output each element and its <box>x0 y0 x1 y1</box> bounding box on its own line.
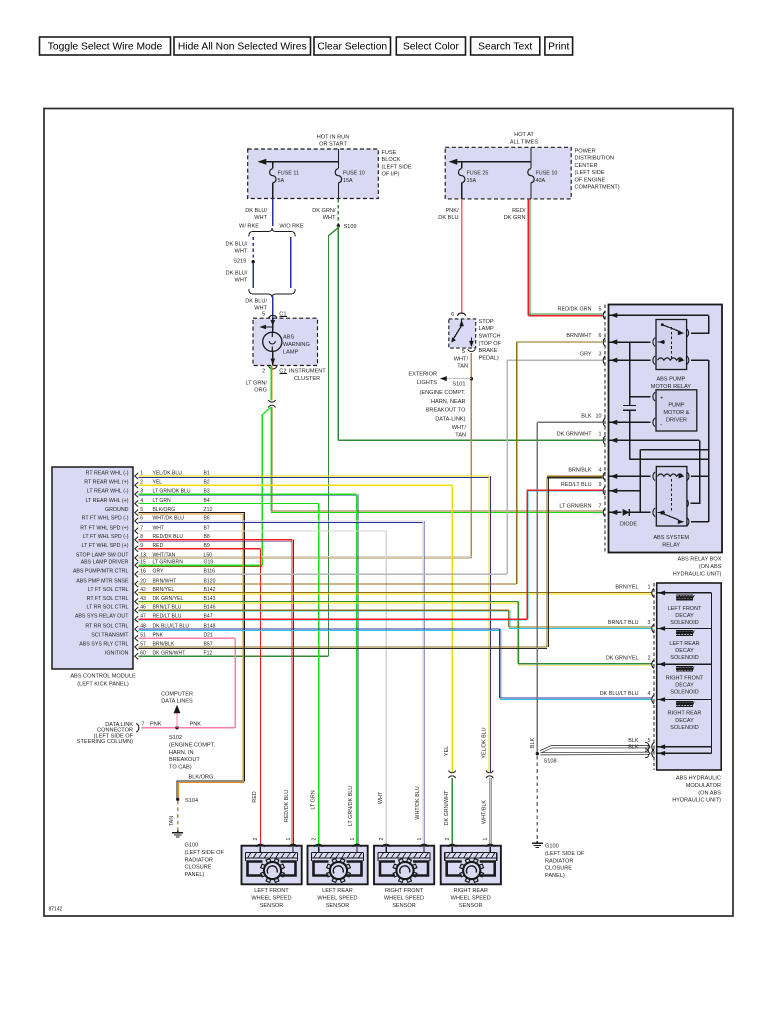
svg-text:RIGHT REAR: RIGHT REAR <box>453 888 487 894</box>
svg-text:47: 47 <box>140 614 146 620</box>
svg-text:WHEEL SPEED: WHEEL SPEED <box>451 895 491 901</box>
svg-text:Search Text: Search Text <box>478 41 532 52</box>
svg-text:48: 48 <box>140 624 146 630</box>
svg-text:4: 4 <box>648 691 651 697</box>
svg-text:DECAY: DECAY <box>675 648 694 654</box>
svg-text:BLK: BLK <box>628 745 639 751</box>
svg-text:7: 7 <box>140 525 143 531</box>
svg-text:46: 46 <box>140 605 146 611</box>
svg-text:Toggle Select Wire Mode: Toggle Select Wire Mode <box>48 41 163 52</box>
svg-text:WHT/: WHT/ <box>454 356 469 362</box>
svg-text:1: 1 <box>140 470 143 476</box>
svg-text:LT GRN: LT GRN <box>310 790 316 809</box>
svg-text:Z12: Z12 <box>204 507 213 513</box>
svg-text:LIGHTS: LIGHTS <box>417 380 437 386</box>
svg-text:LT GRN: LT GRN <box>153 498 172 504</box>
svg-text:COMPUTER: COMPUTER <box>161 691 193 697</box>
svg-text:(ON ABS: (ON ABS <box>698 790 721 796</box>
svg-text:RT RR SOL CTRL: RT RR SOL CTRL <box>85 624 128 630</box>
svg-text:DK GRN/YEL: DK GRN/YEL <box>606 656 639 662</box>
svg-text:40A: 40A <box>536 178 546 184</box>
svg-text:RIGHT FRONT: RIGHT FRONT <box>666 675 704 681</box>
svg-text:B1: B1 <box>204 470 210 476</box>
svg-text:DECAY: DECAY <box>675 683 694 689</box>
svg-text:DISTRIBUTION: DISTRIBUTION <box>575 156 614 162</box>
svg-text:ABS CONTROL MODULE: ABS CONTROL MODULE <box>70 674 136 680</box>
svg-text:(LEFT SIDE: (LEFT SIDE <box>382 164 412 170</box>
svg-text:LT REAR WHL (+): LT REAR WHL (+) <box>85 498 128 504</box>
svg-text:2: 2 <box>140 480 143 486</box>
svg-text:S102: S102 <box>169 735 182 741</box>
svg-text:FUSE 11: FUSE 11 <box>278 171 299 177</box>
svg-text:RT FT SOL CTRL: RT FT SOL CTRL <box>87 596 129 602</box>
svg-text:DK GRN/: DK GRN/ <box>312 208 336 214</box>
svg-text:DK GRN/WHT: DK GRN/WHT <box>557 432 592 438</box>
svg-text:SENSOR: SENSOR <box>326 903 350 909</box>
svg-text:RADIATOR: RADIATOR <box>185 857 213 863</box>
svg-text:DK BLU/: DK BLU/ <box>226 241 248 247</box>
svg-text:WARNING: WARNING <box>283 342 310 348</box>
svg-text:DECAY: DECAY <box>675 718 694 724</box>
svg-text:LEFT REAR: LEFT REAR <box>669 641 699 647</box>
svg-text:DIODE: DIODE <box>620 521 637 527</box>
svg-text:RELAY: RELAY <box>662 543 680 549</box>
svg-text:PANEL): PANEL) <box>545 873 565 879</box>
svg-text:57: 57 <box>140 641 146 647</box>
svg-text:B8: B8 <box>204 534 210 540</box>
svg-text:HARN, IN: HARN, IN <box>169 750 194 756</box>
svg-text:COMPARTMENT): COMPARTMENT) <box>575 185 620 191</box>
svg-text:DK GRN/YEL: DK GRN/YEL <box>153 596 184 602</box>
svg-text:9: 9 <box>140 543 143 549</box>
svg-text:INSTRUMENT: INSTRUMENT <box>289 368 326 374</box>
svg-text:RED/DK BLU: RED/DK BLU <box>153 534 184 540</box>
svg-text:10: 10 <box>596 414 602 420</box>
svg-text:51: 51 <box>140 633 146 639</box>
svg-text:4: 4 <box>140 498 143 504</box>
svg-text:ABS SYS RELAY OUT: ABS SYS RELAY OUT <box>75 614 129 620</box>
svg-text:RT REAR WHL (+): RT REAR WHL (+) <box>84 480 128 486</box>
svg-text:TO CAB): TO CAB) <box>169 765 192 771</box>
svg-text:LT REAR WHL (-): LT REAR WHL (-) <box>87 489 129 495</box>
svg-text:STEERING COLUMN): STEERING COLUMN) <box>77 739 133 745</box>
svg-text:DK GRN/WHT: DK GRN/WHT <box>444 790 450 825</box>
svg-text:BLK/ORG: BLK/ORG <box>153 507 176 513</box>
svg-text:BRN/BLK: BRN/BLK <box>568 468 591 474</box>
svg-text:RED/DK GRN: RED/DK GRN <box>558 307 592 313</box>
svg-text:STOP: STOP <box>479 319 494 325</box>
svg-text:LEFT FRONT: LEFT FRONT <box>668 606 702 612</box>
svg-text:WHEEL SPEED: WHEEL SPEED <box>251 895 291 901</box>
svg-text:SOLENOID: SOLENOID <box>670 690 698 696</box>
svg-text:MOTOR &: MOTOR & <box>663 410 689 416</box>
svg-text:87142: 87142 <box>49 907 63 913</box>
svg-text:13: 13 <box>140 552 146 558</box>
svg-text:B7: B7 <box>204 525 210 531</box>
svg-text:WHT/DK BLU: WHT/DK BLU <box>153 515 185 521</box>
svg-text:2: 2 <box>253 837 259 840</box>
svg-text:DRIVER: DRIVER <box>666 418 687 424</box>
svg-text:15A: 15A <box>467 178 477 184</box>
svg-text:SCI TRANSMIT: SCI TRANSMIT <box>91 633 129 639</box>
svg-text:FUSE: FUSE <box>382 150 397 156</box>
svg-text:LAMP: LAMP <box>479 326 495 332</box>
svg-text:B2: B2 <box>204 480 210 486</box>
svg-text:4: 4 <box>599 468 602 474</box>
svg-text:PNK: PNK <box>190 721 202 727</box>
svg-text:DECAY: DECAY <box>675 613 694 619</box>
svg-text:B3: B3 <box>204 489 210 495</box>
svg-text:DK BLU/: DK BLU/ <box>226 270 248 276</box>
svg-text:BLK: BLK <box>628 738 639 744</box>
svg-text:(ENGINE COMPT.: (ENGINE COMPT. <box>169 742 215 748</box>
svg-text:7: 7 <box>141 722 144 728</box>
svg-text:OF ENGINE: OF ENGINE <box>575 177 606 183</box>
svg-text:S219: S219 <box>233 259 246 265</box>
svg-text:BLK: BLK <box>530 738 536 749</box>
svg-text:2: 2 <box>648 656 651 662</box>
svg-text:BRN/WHT: BRN/WHT <box>566 333 592 339</box>
svg-text:3: 3 <box>599 351 602 357</box>
svg-text:BLK: BLK <box>581 414 592 420</box>
svg-text:YEL/DK BLU: YEL/DK BLU <box>153 470 183 476</box>
svg-text:BRAKE: BRAKE <box>479 348 498 354</box>
svg-text:BRN/LT BLU: BRN/LT BLU <box>608 620 639 626</box>
svg-text:B9: B9 <box>204 543 210 549</box>
svg-text:LT GRN/DK BLU: LT GRN/DK BLU <box>153 489 191 495</box>
svg-text:LT GRN/BRN: LT GRN/BRN <box>559 504 591 510</box>
svg-text:B146: B146 <box>204 605 216 611</box>
svg-text:15: 15 <box>140 560 146 566</box>
svg-text:RT FT WHL SPD (+): RT FT WHL SPD (+) <box>80 525 128 531</box>
svg-text:B47: B47 <box>204 614 213 620</box>
svg-text:ORG: ORG <box>254 387 267 393</box>
svg-text:B57: B57 <box>204 641 213 647</box>
svg-text:YEL: YEL <box>444 746 450 756</box>
svg-text:6: 6 <box>451 312 454 318</box>
svg-text:LT FT WHL SPD (+): LT FT WHL SPD (+) <box>81 543 128 549</box>
svg-text:BLK/ORG: BLK/ORG <box>189 774 214 780</box>
svg-text:HOT IN RUN: HOT IN RUN <box>317 134 350 140</box>
svg-text:HOT AT: HOT AT <box>514 132 534 138</box>
svg-text:9: 9 <box>599 482 602 488</box>
svg-text:LEFT REAR: LEFT REAR <box>322 888 353 894</box>
svg-text:GRY: GRY <box>153 569 165 575</box>
svg-text:LT GRN/BRN: LT GRN/BRN <box>153 560 184 566</box>
svg-text:DK GRN: DK GRN <box>504 215 526 221</box>
svg-text:ABS RELAY BOX: ABS RELAY BOX <box>678 557 722 563</box>
svg-text:ALL TIMES: ALL TIMES <box>510 140 539 146</box>
svg-text:RIGHT FRONT: RIGHT FRONT <box>385 888 424 894</box>
svg-text:ABS: ABS <box>283 335 294 341</box>
svg-text:SENSOR: SENSOR <box>459 903 483 909</box>
svg-text:5A: 5A <box>278 178 285 184</box>
svg-text:1: 1 <box>286 837 292 840</box>
svg-text:6: 6 <box>599 333 602 339</box>
svg-text:RED/LT BLU: RED/LT BLU <box>153 614 182 620</box>
svg-text:WHEEL SPEED: WHEEL SPEED <box>317 895 357 901</box>
svg-text:B142: B142 <box>204 587 216 593</box>
svg-text:GROUND: GROUND <box>105 507 129 513</box>
svg-text:DK BLU/: DK BLU/ <box>245 298 267 304</box>
svg-text:ABS PUMP/MTR CTRL: ABS PUMP/MTR CTRL <box>73 569 129 575</box>
svg-text:DK BLU/LT BLU: DK BLU/LT BLU <box>153 624 190 630</box>
svg-text:LEFT FRONT: LEFT FRONT <box>254 888 289 894</box>
svg-text:PNK: PNK <box>153 633 164 639</box>
svg-text:WHEEL SPEED: WHEEL SPEED <box>384 895 424 901</box>
svg-text:RED/DK BLU: RED/DK BLU <box>284 790 290 822</box>
svg-text:SOLENOID: SOLENOID <box>670 655 698 661</box>
svg-text:W/O RKE: W/O RKE <box>279 223 304 229</box>
svg-text:LT RR SOL CTRL: LT RR SOL CTRL <box>87 605 129 611</box>
svg-text:YEL: YEL <box>153 480 163 486</box>
svg-text:MOTOR RELAY: MOTOR RELAY <box>651 384 691 390</box>
svg-text:DK BLU: DK BLU <box>438 215 458 221</box>
svg-text:RED/LT BLU: RED/LT BLU <box>561 482 592 488</box>
svg-text:-: - <box>660 421 662 428</box>
svg-text:PUMP: PUMP <box>668 403 684 409</box>
svg-text:5: 5 <box>599 307 602 313</box>
svg-text:WHT: WHT <box>153 525 165 531</box>
svg-text:RED/: RED/ <box>512 208 526 214</box>
svg-text:42: 42 <box>140 587 146 593</box>
svg-text:BLOCK: BLOCK <box>382 157 401 163</box>
svg-text:BRN/YEL: BRN/YEL <box>153 587 175 593</box>
svg-text:BRN/BLK: BRN/BLK <box>153 641 175 647</box>
svg-text:(LEFT SIDE OF: (LEFT SIDE OF <box>545 851 585 857</box>
svg-text:F12: F12 <box>204 651 213 657</box>
svg-text:LT GRN/DK BLU: LT GRN/DK BLU <box>348 786 354 826</box>
svg-text:LAMP: LAMP <box>283 350 299 356</box>
svg-text:5: 5 <box>462 349 465 355</box>
svg-text:B143: B143 <box>204 596 216 602</box>
svg-text:OF I/P): OF I/P) <box>382 172 400 178</box>
svg-text:CLUSTER: CLUSTER <box>294 376 320 382</box>
svg-text:WHT/: WHT/ <box>452 425 467 431</box>
svg-text:2: 2 <box>379 837 385 840</box>
svg-text:5: 5 <box>140 507 143 513</box>
svg-text:8: 8 <box>140 534 143 540</box>
svg-text:SENSOR: SENSOR <box>260 903 284 909</box>
svg-text:CLOSURE: CLOSURE <box>185 865 212 871</box>
svg-text:B4: B4 <box>204 498 210 504</box>
svg-text:7: 7 <box>599 504 602 510</box>
svg-text:WHT: WHT <box>378 791 384 804</box>
svg-text:OR START: OR START <box>319 142 347 148</box>
svg-text:1: 1 <box>417 837 423 840</box>
svg-text:STOP LAMP SW OUT: STOP LAMP SW OUT <box>76 552 129 558</box>
svg-text:TAN: TAN <box>457 364 468 370</box>
svg-text:WHT: WHT <box>235 277 248 283</box>
svg-text:ABS HYDRAULIC: ABS HYDRAULIC <box>676 776 721 782</box>
svg-text:RT FT WHL SPD (-): RT FT WHL SPD (-) <box>82 515 129 521</box>
svg-text:PANEL): PANEL) <box>185 872 205 878</box>
svg-text:5: 5 <box>262 311 265 317</box>
svg-text:1: 1 <box>599 432 602 438</box>
svg-text:(ENGINE COMPT.: (ENGINE COMPT. <box>420 390 466 396</box>
svg-text:WHT: WHT <box>235 248 248 254</box>
svg-text:BRN/YEL: BRN/YEL <box>615 584 638 590</box>
svg-text:SOLENOID: SOLENOID <box>670 620 698 626</box>
svg-text:RED: RED <box>252 791 258 802</box>
svg-text:15A: 15A <box>343 178 353 184</box>
svg-text:43: 43 <box>140 596 146 602</box>
svg-text:B148: B148 <box>204 624 216 630</box>
svg-text:1: 1 <box>648 584 651 590</box>
svg-text:G19: G19 <box>204 560 214 566</box>
svg-text:B116: B116 <box>204 569 216 575</box>
svg-text:ABS PUMP: ABS PUMP <box>656 377 685 383</box>
svg-text:WHT: WHT <box>323 215 336 221</box>
svg-text:DATA LINES: DATA LINES <box>161 699 193 705</box>
svg-text:Select Color: Select Color <box>403 41 460 52</box>
svg-text:DK BLU/LT BLU: DK BLU/LT BLU <box>600 691 639 697</box>
svg-text:ABS LAMP DRIVER: ABS LAMP DRIVER <box>81 560 129 566</box>
svg-text:POWER: POWER <box>575 149 596 155</box>
svg-text:2: 2 <box>311 837 317 840</box>
svg-text:WHT: WHT <box>254 215 267 221</box>
svg-text:60: 60 <box>140 651 146 657</box>
svg-text:HARN, NEAR: HARN, NEAR <box>431 399 466 405</box>
svg-text:2: 2 <box>445 837 451 840</box>
svg-text:G100: G100 <box>545 844 559 850</box>
svg-text:(ON ABS: (ON ABS <box>699 564 722 570</box>
svg-text:20: 20 <box>140 578 146 584</box>
svg-text:Hide All Non Selected Wires: Hide All Non Selected Wires <box>178 41 307 52</box>
svg-text:6: 6 <box>140 515 143 521</box>
svg-text:(LEFT SIDE OF: (LEFT SIDE OF <box>185 850 225 856</box>
svg-text:BREAKOUT TO: BREAKOUT TO <box>426 408 466 414</box>
svg-text:LT FT WHL SPD (-): LT FT WHL SPD (-) <box>83 534 129 540</box>
svg-text:HYDRAULIC UNIT): HYDRAULIC UNIT) <box>673 572 722 578</box>
svg-text:DK BLU/: DK BLU/ <box>245 208 267 214</box>
svg-text:GRY: GRY <box>580 351 592 357</box>
svg-text:PNK: PNK <box>150 721 162 727</box>
svg-text:RADIATOR: RADIATOR <box>545 858 573 864</box>
svg-text:(LEFT SIDE: (LEFT SIDE <box>575 170 605 176</box>
svg-text:TAN: TAN <box>169 816 175 826</box>
svg-text:S104: S104 <box>185 798 198 804</box>
svg-text:SOLENOID: SOLENOID <box>670 725 698 731</box>
svg-text:BREAKOUT: BREAKOUT <box>169 757 200 763</box>
svg-text:FUSE 25: FUSE 25 <box>467 171 489 177</box>
svg-text:1: 1 <box>483 837 489 840</box>
svg-text:WHT/BLK: WHT/BLK <box>482 800 488 824</box>
svg-text:RT REAR WHL (-): RT REAR WHL (-) <box>86 470 129 476</box>
svg-text:G100: G100 <box>185 843 199 849</box>
svg-text:MODULATOR: MODULATOR <box>686 783 721 789</box>
svg-text:BRN/LT BLU: BRN/LT BLU <box>153 605 182 611</box>
svg-text:DK GRN/WHT: DK GRN/WHT <box>153 651 186 657</box>
svg-text:LT FT SOL CTRL: LT FT SOL CTRL <box>88 587 129 593</box>
svg-text:ABS SYSTEM: ABS SYSTEM <box>653 535 689 541</box>
svg-text:L50: L50 <box>204 552 213 558</box>
svg-text:3: 3 <box>140 489 143 495</box>
svg-text:RED: RED <box>153 543 164 549</box>
svg-text:ABS SYS RLY CTRL: ABS SYS RLY CTRL <box>79 641 128 647</box>
svg-text:WHT: WHT <box>254 305 267 311</box>
svg-text:S109: S109 <box>344 224 357 230</box>
svg-text:W/ RKE: W/ RKE <box>239 223 259 229</box>
svg-text:SENSOR: SENSOR <box>392 903 416 909</box>
svg-text:S108: S108 <box>544 759 557 765</box>
svg-text:Clear Selection: Clear Selection <box>317 41 387 52</box>
svg-text:WHT/TAN: WHT/TAN <box>153 552 176 558</box>
svg-text:IGNITION: IGNITION <box>105 651 129 657</box>
svg-text:S101: S101 <box>452 381 465 387</box>
svg-text:HYDRAULIC UNIT): HYDRAULIC UNIT) <box>672 798 721 804</box>
svg-text:3: 3 <box>648 620 651 626</box>
svg-text:B120: B120 <box>204 578 216 584</box>
svg-text:TAN: TAN <box>455 432 466 438</box>
svg-text:PNK/: PNK/ <box>445 208 459 214</box>
svg-text:ABS PMP MTR SNSE: ABS PMP MTR SNSE <box>76 578 129 584</box>
svg-text:LT GRN/: LT GRN/ <box>245 380 267 386</box>
svg-text:16: 16 <box>140 569 146 575</box>
svg-text:FUSE 10: FUSE 10 <box>343 171 365 177</box>
svg-text:(TOP OF: (TOP OF <box>479 341 502 347</box>
svg-text:D21: D21 <box>204 633 214 639</box>
svg-text:2: 2 <box>262 368 265 374</box>
svg-text:(LEFT KICK PANEL): (LEFT KICK PANEL) <box>77 681 129 687</box>
svg-text:CLOSURE: CLOSURE <box>545 866 572 872</box>
svg-text:EXTERIOR: EXTERIOR <box>408 371 437 377</box>
svg-text:PEDAL): PEDAL) <box>479 355 499 361</box>
svg-text:BRN/WHT: BRN/WHT <box>153 578 177 584</box>
svg-text:RIGHT REAR: RIGHT REAR <box>668 711 702 717</box>
svg-text:Print: Print <box>548 41 569 52</box>
svg-text:1: 1 <box>350 837 356 840</box>
svg-text:YEL/DK BLU: YEL/DK BLU <box>482 727 488 758</box>
svg-text:WHT/DK BLU: WHT/DK BLU <box>415 786 421 819</box>
svg-text:DATA-LINK): DATA-LINK) <box>435 417 465 423</box>
svg-text:B6: B6 <box>204 515 210 521</box>
svg-text:CENTER: CENTER <box>575 163 598 169</box>
svg-text:FUSE 10: FUSE 10 <box>536 171 558 177</box>
svg-text:SWITCH: SWITCH <box>479 334 501 340</box>
